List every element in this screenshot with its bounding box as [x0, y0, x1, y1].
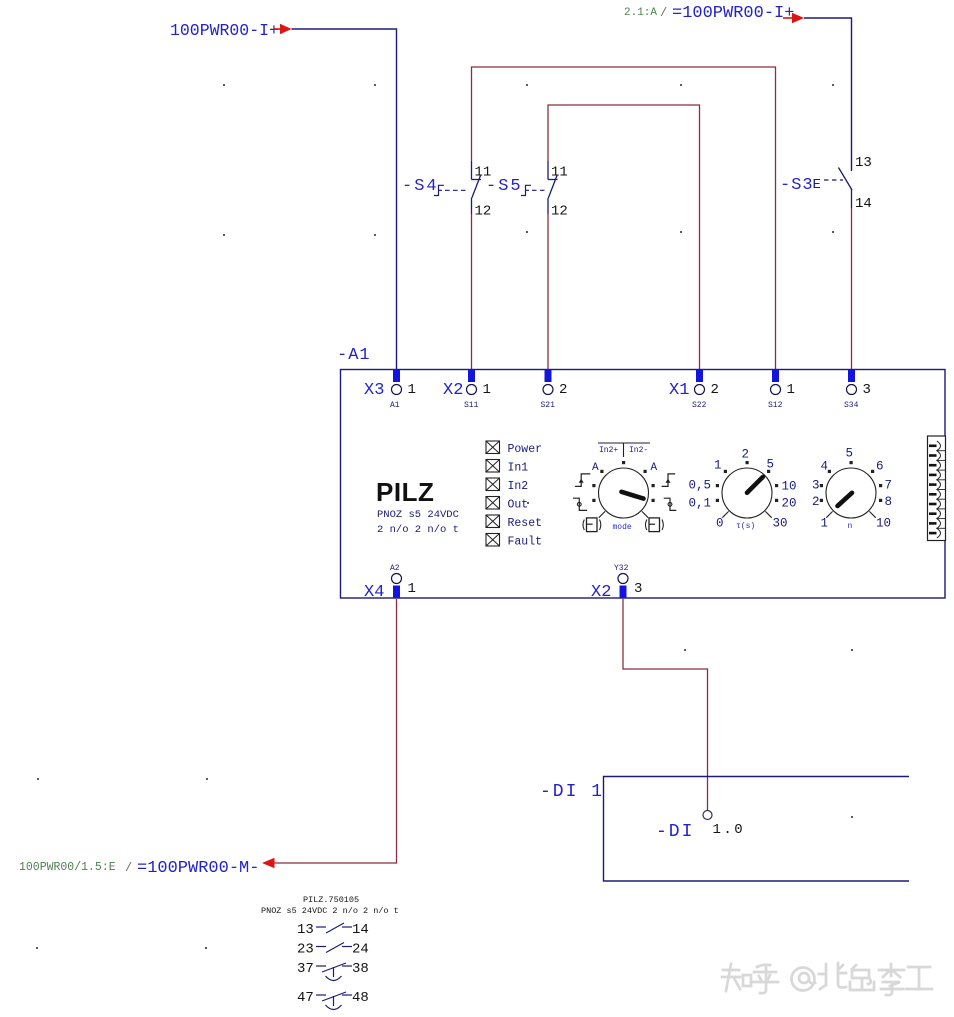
wire I+ to S3:13 — [804, 18, 852, 171]
svg-text:2: 2 — [559, 382, 567, 398]
svg-text:In2+: In2+ — [599, 446, 618, 455]
contact row 13-14 — [297, 922, 369, 938]
svg-text:1: 1 — [787, 382, 795, 398]
switch S5 (NC contact) — [521, 161, 558, 214]
pin 11 (S5) — [551, 165, 568, 181]
LED Power — [486, 441, 542, 456]
svg-text:-A1: -A1 — [337, 346, 371, 365]
svg-text:1: 1 — [408, 581, 416, 597]
svg-text:X2: X2 — [443, 381, 463, 400]
svg-text:5: 5 — [767, 458, 775, 472]
svg-text:Y32: Y32 — [614, 564, 629, 573]
pin 14 — [855, 196, 872, 212]
svg-text:0,1: 0,1 — [689, 497, 712, 511]
wire S4:12 to X2:1 — [471, 214, 473, 369]
svg-text:In2: In2 — [508, 480, 529, 493]
svg-text:S21: S21 — [541, 401, 556, 410]
svg-text:In1: In1 — [508, 462, 529, 475]
svg-text:14: 14 — [352, 922, 369, 938]
svg-text:4: 4 — [821, 460, 829, 474]
pin 12 (S4) — [475, 204, 492, 220]
svg-text:14: 14 — [855, 196, 872, 212]
svg-text:τ(s): τ(s) — [736, 522, 755, 531]
terminal X1:1 (S12) — [768, 370, 795, 411]
svg-text:37: 37 — [297, 961, 314, 977]
LED In1 — [486, 460, 528, 475]
svg-text:24: 24 — [352, 942, 369, 958]
svg-text:E: E — [813, 177, 821, 193]
svg-text:13: 13 — [855, 155, 872, 171]
svg-text:n: n — [848, 522, 853, 531]
wire X2:3 to DI input — [623, 599, 708, 811]
svg-text:3: 3 — [812, 479, 820, 493]
svg-text:1: 1 — [821, 517, 829, 531]
svg-text:PILZ.750105: PILZ.750105 — [303, 895, 359, 905]
svg-text:3: 3 — [634, 581, 642, 597]
svg-text:X2: X2 — [591, 583, 611, 602]
label -S5 — [486, 177, 523, 196]
net label =100PWR00-I+ — [672, 4, 794, 23]
svg-text:2 n/o 2 n/o t: 2 n/o 2 n/o t — [377, 524, 459, 536]
cross reference 2.1:A — [624, 6, 667, 20]
svg-text:S12: S12 — [768, 401, 783, 410]
svg-text:S34: S34 — [844, 401, 859, 410]
label -A1 — [337, 346, 371, 365]
svg-text:S22: S22 — [692, 401, 707, 410]
PILZ logo — [376, 477, 434, 507]
potential arrow (left, I+) — [274, 24, 292, 35]
wire S4:11 loop to X1:1 — [472, 67, 776, 369]
svg-text:10: 10 — [782, 480, 797, 494]
terminal X2:3 (Y32) — [591, 564, 642, 602]
svg-text:A2: A2 — [390, 564, 400, 573]
wire S5:12 to X2:2 — [547, 214, 549, 369]
terminal X3:1 (A1) — [364, 370, 416, 411]
switch S3 (NO contact) — [824, 168, 852, 209]
svg-text:47: 47 — [297, 990, 314, 1006]
svg-text:=100PWR00-I+: =100PWR00-I+ — [672, 4, 794, 23]
svg-text:8: 8 — [885, 495, 893, 509]
svg-text:6: 6 — [876, 460, 884, 474]
count dial n — [812, 447, 892, 532]
grid reference dots — [36, 84, 853, 949]
safety relay A1 box — [341, 370, 946, 599]
svg-text:1.0: 1.0 — [713, 822, 746, 838]
LED In2 — [486, 478, 528, 493]
svg-text:-DI 1: -DI 1 — [540, 782, 604, 802]
connector strip — [928, 436, 946, 541]
svg-text:-S4: -S4 — [402, 177, 439, 196]
svg-text:13: 13 — [297, 922, 314, 938]
terminal X4:1 (A2) — [364, 564, 416, 602]
terminal X2:2 (S21) — [541, 370, 568, 411]
svg-text:3: 3 — [863, 382, 871, 398]
PLC card DI box — [604, 777, 910, 882]
device type text — [377, 509, 459, 536]
label -DI 1 — [540, 782, 604, 802]
potential arrow (M-) — [262, 858, 275, 869]
svg-text:100PWR00/1.5:E: 100PWR00/1.5:E — [19, 861, 116, 874]
svg-text:A: A — [651, 462, 658, 474]
pin 11 (S4) — [475, 165, 492, 181]
svg-text:Out: Out — [508, 499, 529, 512]
svg-text:PNOZ s5 24VDC: PNOZ s5 24VDC — [377, 509, 459, 521]
svg-text:12: 12 — [551, 204, 568, 220]
potential arrow (right, I+) — [783, 13, 804, 24]
svg-text:X3: X3 — [364, 381, 384, 400]
svg-text:48: 48 — [352, 990, 369, 1006]
svg-text:/: / — [660, 6, 667, 20]
svg-text:2: 2 — [711, 382, 719, 398]
label -S4 — [402, 177, 439, 196]
net label =100PWR00-M- — [137, 859, 259, 878]
contact row 47-48 (delayed) — [297, 990, 369, 1010]
svg-text:2: 2 — [812, 495, 820, 509]
terminal X1:3 (S34) — [844, 370, 871, 411]
svg-text:2.1:A: 2.1:A — [624, 7, 657, 19]
svg-text:X1: X1 — [669, 381, 689, 400]
svg-text:S11: S11 — [464, 401, 479, 410]
terminal X1:2 (S22) — [669, 370, 719, 411]
svg-text:5: 5 — [846, 447, 854, 461]
wire I+ to X3:1 — [292, 29, 397, 369]
svg-text:0,5: 0,5 — [689, 479, 712, 493]
svg-text:1: 1 — [483, 382, 491, 398]
cross reference 100PWR00/1.5:E — [19, 861, 132, 875]
switch S4 (NC contact) — [434, 161, 481, 214]
svg-text:Fault: Fault — [508, 536, 543, 549]
svg-text:-S3: -S3 — [780, 176, 814, 195]
svg-text:100PWR00-I+: 100PWR00-I+ — [170, 21, 279, 40]
svg-text:12: 12 — [475, 204, 492, 220]
watermark zhihu — [722, 963, 932, 995]
LED Out — [486, 497, 528, 512]
label -S3 — [780, 176, 821, 195]
pin 13 — [855, 155, 872, 171]
svg-text:23: 23 — [297, 942, 314, 958]
svg-text:PNOZ s5 24VDC 2 n/o 2 n/o t: PNOZ s5 24VDC 2 n/o 2 n/o t — [261, 906, 399, 916]
svg-text:mode: mode — [613, 523, 632, 532]
contact row 37-38 (delayed) — [297, 961, 369, 981]
svg-text:Reset: Reset — [508, 517, 543, 530]
svg-text:-DI: -DI — [656, 822, 694, 842]
svg-text:-S5: -S5 — [486, 177, 523, 196]
svg-text:30: 30 — [773, 517, 788, 531]
svg-text:11: 11 — [551, 165, 568, 181]
terminal X2:1 (S11) — [443, 370, 491, 411]
svg-text:Power: Power — [508, 443, 543, 456]
DI input terminal 1.0 — [703, 811, 745, 839]
svg-text:7: 7 — [885, 479, 893, 493]
wire S5:11 loop to X1:2 — [548, 105, 700, 369]
svg-text:20: 20 — [782, 497, 797, 511]
svg-text:=100PWR00-M-: =100PWR00-M- — [137, 859, 259, 878]
cross reference table PILZ.750105 — [261, 895, 399, 916]
wire S3:14 to X1:3 — [851, 208, 853, 369]
label -DI — [656, 822, 694, 842]
svg-text:/: / — [125, 861, 132, 875]
svg-text:1: 1 — [714, 459, 722, 473]
pin 12 (S5) — [551, 204, 568, 220]
contact row 23-24 — [297, 942, 369, 958]
svg-text:X4: X4 — [364, 583, 384, 602]
svg-text:In2-: In2- — [629, 446, 648, 455]
net label 100PWR00-I+ — [170, 21, 279, 40]
wire X4:1 to M- arrow — [275, 599, 397, 863]
LED Reset — [486, 515, 542, 530]
mode selector dial — [573, 443, 676, 532]
svg-text:1: 1 — [408, 382, 416, 398]
svg-text:2: 2 — [742, 448, 750, 462]
svg-text:A1: A1 — [390, 401, 400, 410]
svg-text:38: 38 — [352, 961, 369, 977]
svg-text:A: A — [592, 462, 599, 474]
LED Fault — [486, 534, 542, 549]
svg-text:0: 0 — [716, 517, 724, 531]
time dial t(s) — [689, 448, 797, 532]
svg-text:PILZ: PILZ — [376, 477, 434, 507]
svg-text:10: 10 — [876, 517, 891, 531]
